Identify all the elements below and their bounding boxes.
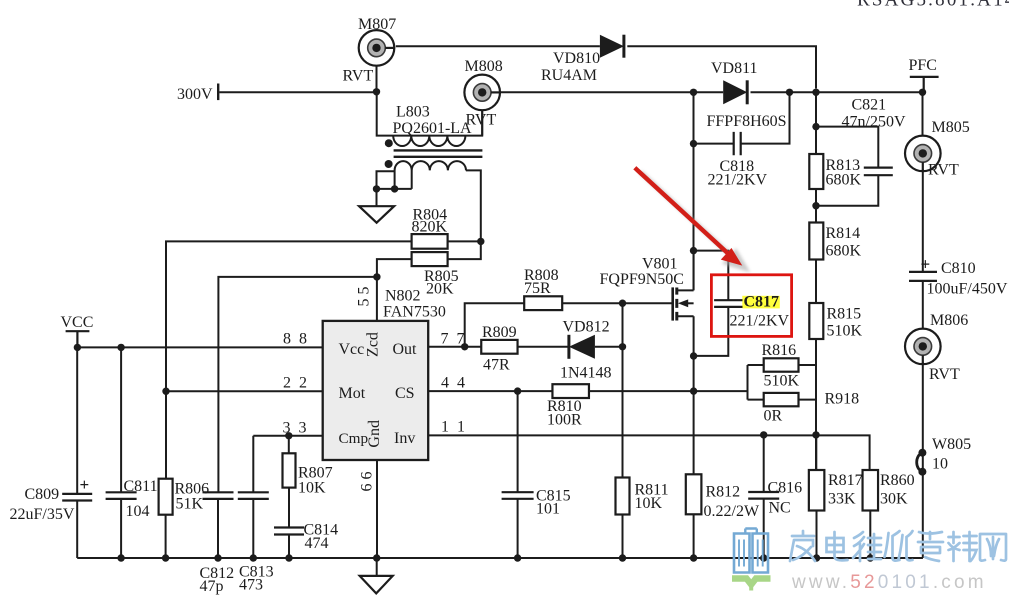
svg-text:Out: Out bbox=[393, 341, 418, 358]
wire: secondary to R804/R805 right junction bbox=[477, 238, 484, 245]
wire: C814 bottom bbox=[288, 535, 290, 559]
junction C811 gnd bbox=[117, 554, 124, 561]
wire: R804 right bbox=[448, 240, 481, 242]
capacitor C821 (parallel R813) bbox=[816, 127, 878, 206]
svg-text:473: 473 bbox=[239, 577, 263, 594]
svg-text:M805: M805 bbox=[932, 119, 970, 136]
svg-text:www.520101.com: www.520101.com bbox=[791, 572, 987, 593]
junction R860 gnd bbox=[867, 554, 874, 561]
wire: PFC node down to M805 bbox=[922, 92, 924, 137]
wire: R814 to R815 bbox=[815, 260, 817, 304]
wire: R807 to C814 bbox=[288, 488, 290, 528]
junction R807/C814 gnd bbox=[285, 554, 292, 561]
resistor R812 bbox=[686, 474, 702, 514]
capacitor C817 (highlighted) bbox=[742, 296, 780, 309]
diode VD812 (cathode left) bbox=[567, 335, 570, 359]
svg-text:FFPF8H60S: FFPF8H60S bbox=[707, 113, 787, 130]
wire: C815 lead down bbox=[517, 391, 519, 492]
svg-text:6 6: 6 6 bbox=[359, 472, 376, 492]
svg-text:4 4: 4 4 bbox=[441, 375, 467, 392]
svg-text:1N4148: 1N4148 bbox=[560, 365, 612, 382]
wire: Cmp pin 3 with R807 branch bbox=[253, 436, 322, 493]
node VCC bbox=[66, 331, 90, 347]
svg-text:Zcd: Zcd bbox=[364, 332, 381, 357]
svg-text:M807: M807 bbox=[358, 16, 396, 33]
svg-text:0.22/2W: 0.22/2W bbox=[704, 503, 760, 520]
svg-text:R814: R814 bbox=[826, 225, 861, 242]
resistor R814 bbox=[809, 223, 823, 260]
svg-text:47p: 47p bbox=[200, 578, 224, 595]
wire: C817 bottom lead bbox=[694, 307, 729, 356]
wire: Inv pin 1 long rail bbox=[428, 435, 869, 470]
junction secondary-ground right bbox=[391, 185, 398, 192]
resistor R810 bbox=[552, 384, 589, 398]
wire: R807 top lead bbox=[288, 436, 290, 454]
junction R807 top bbox=[285, 432, 292, 439]
svg-text:+: + bbox=[921, 255, 931, 274]
svg-text:NC: NC bbox=[769, 500, 791, 517]
primary phasing dot bbox=[385, 139, 393, 147]
wire: gate branch down to R811 bbox=[622, 303, 624, 477]
svg-text:FAN7530: FAN7530 bbox=[383, 304, 446, 321]
watermark book ribbon (green) bbox=[732, 579, 771, 585]
resistor R804 bbox=[412, 234, 448, 249]
wire: R817 bottom bbox=[815, 435, 817, 558]
svg-text:510K: 510K bbox=[827, 323, 863, 340]
diode VD811 bbox=[723, 80, 747, 104]
wire: CS pin 4 bbox=[428, 390, 552, 392]
resistor R813 bbox=[809, 154, 823, 189]
svg-text:1 1: 1 1 bbox=[441, 419, 467, 436]
resistor R817 bbox=[809, 470, 825, 511]
wire: C815 bottom bbox=[517, 499, 519, 558]
svg-text:Gnd: Gnd bbox=[366, 420, 383, 448]
wire: secondary left loop to ground bbox=[377, 171, 412, 206]
resistor 0R (R918) bbox=[764, 393, 799, 406]
resistor R808 bbox=[524, 296, 562, 310]
wire: V801 source down to R812 bbox=[693, 316, 695, 474]
wire: C813 bottom bbox=[252, 499, 254, 558]
connector M805 bbox=[905, 136, 941, 172]
wire: stub to ground symbol bbox=[376, 558, 378, 576]
watermark chinese text (stylized strokes) bbox=[790, 531, 1006, 561]
wire: VD811 cathode to PFC junction bbox=[751, 91, 923, 93]
svg-text:C817: C817 bbox=[744, 294, 780, 311]
wire: C817 top lead bbox=[694, 251, 729, 301]
connector M806 bbox=[905, 329, 941, 365]
junction Zcd / bias wire bbox=[373, 273, 380, 280]
jumper W805 bbox=[917, 453, 923, 472]
svg-text:30K: 30K bbox=[880, 491, 908, 508]
junction secondary-ground left bbox=[373, 185, 380, 192]
wire: R804 left to Mot rail bbox=[166, 241, 412, 478]
transistor V801 MOSFET bbox=[671, 287, 674, 320]
node 300V input terminal bbox=[217, 84, 219, 101]
svg-text:V801: V801 bbox=[642, 256, 678, 273]
watermark book icon bbox=[734, 529, 768, 573]
wire: R805 left to Zcd pin 5 bbox=[377, 259, 412, 321]
capacitor C818 bbox=[734, 132, 741, 155]
junction C818 right branch bbox=[786, 89, 793, 96]
svg-text:680K: 680K bbox=[826, 243, 862, 260]
inductor L803 primary winding bbox=[377, 92, 483, 136]
wire: M807 bottom lead bbox=[376, 66, 378, 92]
svg-text:R815: R815 bbox=[827, 306, 862, 323]
capacitor C814 bbox=[274, 528, 304, 535]
diode VD810 bbox=[600, 35, 624, 58]
svg-text:221/2KV: 221/2KV bbox=[708, 172, 768, 189]
svg-text:75R: 75R bbox=[524, 280, 551, 297]
ground symbol (main) bbox=[360, 576, 393, 594]
junction C818 left branch bbox=[690, 89, 697, 96]
secondary phasing dot bbox=[385, 160, 393, 168]
wire: R805 right up to junction bbox=[448, 241, 481, 259]
junction 300V/M807/L803 primary bbox=[373, 88, 380, 95]
junction R817 top / Inv wire bbox=[812, 431, 819, 438]
node PFC bbox=[910, 77, 939, 92]
connector M807 bbox=[359, 30, 395, 66]
wire: R812 bottom bbox=[693, 514, 695, 558]
junction C812 gnd bbox=[214, 554, 221, 561]
wire: C811 leads bbox=[120, 347, 122, 558]
connector M808 bbox=[464, 75, 500, 111]
wire: C816 leads bbox=[763, 435, 765, 558]
wire: R809 to VD812 bbox=[518, 346, 569, 348]
junction C818 left T bbox=[690, 140, 697, 147]
wire: M808 to VD811 anode bbox=[500, 91, 723, 93]
svg-text:VD812: VD812 bbox=[563, 319, 610, 336]
junction source/CS bbox=[690, 387, 697, 394]
junction pin7/R808 branch bbox=[461, 343, 468, 350]
svg-text:104: 104 bbox=[126, 503, 150, 520]
wire: R806 bottom bbox=[165, 515, 167, 558]
capacitor C816 bbox=[748, 492, 779, 499]
svg-text:W805: W805 bbox=[932, 436, 971, 453]
wire: C810 to M806 bbox=[922, 281, 924, 331]
svg-text:FQPF9N50C: FQPF9N50C bbox=[600, 271, 684, 288]
wire: bias branch to C812 bbox=[218, 277, 377, 492]
junction gate/R811 branch bbox=[619, 300, 626, 307]
junction boost node x=816 bbox=[812, 89, 819, 96]
svg-text:5 5: 5 5 bbox=[355, 287, 372, 307]
junction VCC/C809 bbox=[74, 344, 81, 351]
resistor R816 bbox=[764, 358, 799, 371]
svg-text:RVT: RVT bbox=[466, 112, 497, 129]
wire: R810 right to source node bbox=[589, 390, 694, 392]
wire: R860 bottom bbox=[869, 511, 871, 559]
ground symbol (transformer) bbox=[359, 206, 394, 223]
svg-text:N802: N802 bbox=[385, 288, 421, 305]
resistor R809 bbox=[481, 340, 517, 354]
junction VD812/R811 branch bbox=[619, 343, 626, 350]
junction C817 top branch bbox=[690, 247, 697, 254]
svg-text:100R: 100R bbox=[547, 412, 582, 429]
wire: M808 bottom lead bbox=[481, 92, 483, 135]
capacitor C810 (electrolytic) bbox=[909, 272, 937, 281]
resistor R805 bbox=[412, 252, 448, 266]
svg-text:VCC: VCC bbox=[61, 314, 94, 331]
junction R806 gnd bbox=[162, 554, 169, 561]
svg-text:RVT: RVT bbox=[929, 366, 960, 383]
junction R811 gnd bbox=[619, 554, 626, 561]
svg-text:510K: 510K bbox=[764, 373, 800, 390]
svg-text:33K: 33K bbox=[828, 491, 856, 508]
junction C821 top bbox=[812, 123, 819, 130]
svg-text:10K: 10K bbox=[298, 480, 326, 497]
junction C816 gnd bbox=[760, 554, 767, 561]
svg-text:R809: R809 bbox=[482, 324, 517, 341]
svg-text:C809: C809 bbox=[25, 486, 60, 503]
svg-text:100uF/450V: 100uF/450V bbox=[927, 281, 1008, 298]
wire: C818 branch left bbox=[694, 92, 734, 143]
svg-text:8 8: 8 8 bbox=[283, 331, 309, 348]
junction R812 gnd bbox=[690, 554, 697, 561]
wire: VD811 node down to V801 drain bbox=[693, 144, 695, 291]
svg-text:47R: 47R bbox=[483, 357, 510, 374]
svg-text:M808: M808 bbox=[465, 58, 503, 75]
svg-text:RVT: RVT bbox=[928, 162, 959, 179]
junction R817 gnd bbox=[813, 554, 820, 561]
wire: 300V to junction bbox=[219, 91, 376, 93]
svg-text:C821: C821 bbox=[852, 97, 887, 114]
junction C813 gnd bbox=[250, 554, 257, 561]
transformer core bbox=[394, 150, 483, 156]
resistor R806 bbox=[159, 479, 173, 515]
svg-text:22uF/35V: 22uF/35V bbox=[10, 506, 75, 523]
svg-text:VD811: VD811 bbox=[711, 60, 758, 77]
svg-text:10: 10 bbox=[932, 456, 948, 473]
wire: Out pin 7 bbox=[428, 346, 481, 348]
svg-text:101: 101 bbox=[536, 501, 560, 518]
svg-text:51K: 51K bbox=[176, 496, 204, 513]
capacitor C809 (electrolytic) bbox=[62, 494, 92, 501]
resistor R860 bbox=[863, 470, 879, 511]
wire: VD812 anode to branch bbox=[595, 346, 623, 348]
svg-text:M806: M806 bbox=[930, 312, 968, 329]
svg-text:+: + bbox=[80, 475, 90, 494]
svg-text:0R: 0R bbox=[764, 408, 783, 425]
svg-text:R860: R860 bbox=[880, 472, 915, 489]
wire: Gnd pin 6 to ground rail bbox=[376, 460, 378, 558]
svg-text:20K: 20K bbox=[426, 281, 454, 298]
wire: C812 bottom bbox=[217, 499, 219, 558]
svg-text:Inv: Inv bbox=[394, 430, 415, 447]
svg-text:R918: R918 bbox=[825, 391, 860, 408]
svg-text:474: 474 bbox=[305, 535, 329, 552]
ground rail bbox=[77, 557, 923, 559]
svg-text:Mot: Mot bbox=[339, 385, 366, 402]
wire: Mot pin 2 bbox=[166, 390, 323, 392]
capacitor C815 bbox=[502, 492, 534, 499]
junction C811 top bbox=[117, 344, 124, 351]
op-amp U1 / controller IC N802 FAN7530 body bbox=[323, 321, 429, 460]
wire: M807 output to VD810 anode bbox=[396, 45, 600, 47]
junction pin6 gnd bbox=[373, 554, 380, 561]
wire: CS node corner up to R816/0R left bbox=[694, 365, 764, 400]
svg-text:RU4AM: RU4AM bbox=[541, 67, 597, 84]
wire: R808 branch up bbox=[465, 303, 525, 347]
svg-text:Cmp: Cmp bbox=[339, 430, 369, 447]
svg-text:820K: 820K bbox=[412, 219, 448, 236]
svg-text:C810: C810 bbox=[941, 260, 976, 277]
resistor R815 bbox=[809, 303, 823, 339]
wire: R813 to R814 bbox=[815, 189, 817, 223]
svg-text:CS: CS bbox=[395, 385, 415, 402]
svg-text:300V: 300V bbox=[177, 86, 213, 103]
wire: M806 down to W805 bbox=[918, 362, 923, 558]
svg-text:10K: 10K bbox=[635, 495, 663, 512]
resistor R807 bbox=[283, 453, 296, 487]
svg-text:47n/250V: 47n/250V bbox=[842, 114, 906, 131]
svg-text:C816: C816 bbox=[768, 480, 803, 497]
svg-text:221/2KV: 221/2KV bbox=[730, 313, 790, 330]
junction C815 gnd bbox=[514, 554, 521, 561]
svg-text:Vcc: Vcc bbox=[339, 341, 365, 358]
wire: R815 down to Inv node bbox=[815, 339, 817, 470]
svg-text:L803: L803 bbox=[396, 104, 430, 121]
junction CS/C815 bbox=[514, 387, 521, 394]
svg-text:PQ2601-LA: PQ2601-LA bbox=[393, 120, 473, 137]
inductor L803 secondary winding bbox=[395, 161, 481, 241]
svg-text:R812: R812 bbox=[706, 484, 741, 501]
svg-text:R816: R816 bbox=[762, 342, 797, 359]
capacitor C811 bbox=[106, 492, 137, 499]
svg-text:680K: 680K bbox=[826, 172, 862, 189]
svg-text:RSAG5.801.A140: RSAG5.801.A140 bbox=[857, 0, 1009, 11]
svg-text:R817: R817 bbox=[828, 472, 863, 489]
svg-text:VD810: VD810 bbox=[553, 50, 600, 67]
junction C816 top bbox=[760, 431, 767, 438]
wire: boost node down to R813 bbox=[815, 92, 817, 154]
wire: Vcc rail pin 8 bbox=[77, 346, 322, 348]
wire: VD810 cathode to PFC node (corner at x=816) bbox=[627, 46, 816, 88]
capacitor C812 bbox=[203, 492, 234, 499]
svg-text:C811: C811 bbox=[124, 478, 158, 495]
wire: C818 branch right bbox=[741, 92, 790, 143]
wire: C809 leads bbox=[76, 347, 78, 558]
junction PFC takeoff bbox=[919, 89, 926, 96]
resistor R811 bbox=[616, 478, 630, 515]
svg-text:2 2: 2 2 bbox=[283, 375, 309, 392]
wire: R816/0R right ends to divider bbox=[799, 365, 817, 400]
junction source/C817 return bbox=[690, 352, 697, 359]
junction R806/Mot bbox=[162, 388, 169, 395]
svg-text:RVT: RVT bbox=[343, 68, 374, 85]
wire: M805 to C810 bbox=[922, 169, 924, 272]
wire: R808 to gate node bbox=[562, 302, 672, 304]
junction C821 bottom bbox=[812, 202, 819, 209]
red highlight box around C817 bbox=[711, 275, 791, 337]
capacitor C813 bbox=[238, 492, 269, 499]
wire: R811 bottom bbox=[622, 515, 624, 559]
svg-text:PFC: PFC bbox=[909, 57, 937, 74]
